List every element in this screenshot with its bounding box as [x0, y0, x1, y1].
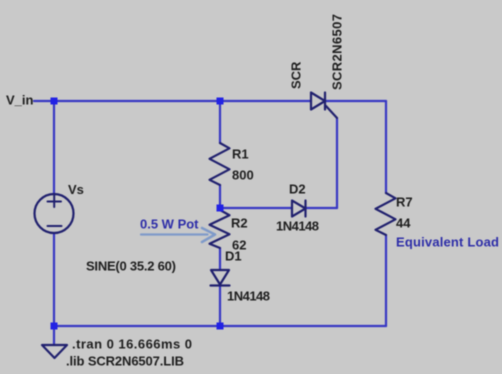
wire middle branch upper (top rail to R1) — [219, 101, 221, 143]
diode D2 cathode bar — [304, 201, 306, 217]
svg-text:R2: R2 — [231, 216, 248, 231]
svg-text:D2: D2 — [289, 182, 306, 197]
SCR U1 cathode bar — [324, 93, 326, 110]
diode D1 body — [211, 270, 229, 285]
junction node R1 top — [217, 98, 224, 105]
diode D1 cathode bar — [211, 284, 230, 286]
junction node bottom left — [51, 323, 58, 330]
wire top rail left (V_in to SCR anode) — [34, 100, 311, 102]
svg-text:Vs: Vs — [68, 182, 84, 197]
svg-text:0.5 W Pot: 0.5 W Pot — [140, 217, 199, 232]
svg-text:SCR2N6507: SCR2N6507 — [330, 14, 345, 90]
annotation arrow (pot wiper) — [141, 233, 208, 235]
svg-text:R1: R1 — [232, 147, 249, 162]
SCR U1 gate lead — [326, 106, 337, 118]
ground — [42, 345, 67, 358]
wire D2 cathode to gate corner — [306, 207, 337, 209]
wire mid node to D2 anode — [220, 207, 292, 209]
svg-text:800: 800 — [232, 168, 254, 183]
svg-text:SCR: SCR — [289, 61, 304, 89]
svg-text:D1: D1 — [225, 249, 242, 264]
wire right rail lower (R7 bottom to bottom corner) — [385, 235, 387, 326]
svg-text:.lib SCR2N6507.LIB: .lib SCR2N6507.LIB — [66, 354, 184, 369]
svg-text:.tran 0 16.666ms 0: .tran 0 16.666ms 0 — [72, 337, 192, 352]
wire bottom rail — [54, 325, 386, 327]
junction node mid (R1/R2/D2) — [217, 205, 224, 212]
svg-text:V_in: V_in — [6, 93, 34, 108]
voltage source minus sign — [48, 225, 62, 227]
wire gate vertical — [336, 118, 338, 208]
wire right rail upper (corner to R7 top) — [385, 101, 387, 193]
junction node bottom mid — [217, 323, 224, 330]
resistor R2 — [210, 210, 230, 248]
svg-text:Equivalent Load: Equivalent Load — [396, 235, 499, 250]
wire top rail right (SCR cathode to right corner) — [325, 100, 386, 102]
svg-text:R7: R7 — [396, 195, 413, 210]
svg-text:1N4148: 1N4148 — [276, 219, 319, 234]
wire left rail lower (Vs bottom to bottom rail) — [53, 233, 55, 326]
resistor R1 — [210, 143, 230, 185]
wire R1 to mid node — [219, 185, 221, 210]
junction node V_in — [51, 98, 58, 105]
svg-text:44: 44 — [396, 216, 411, 231]
SCR U1 body — [311, 93, 325, 110]
wire R2 to D1 — [219, 248, 221, 270]
voltage source plus sign — [48, 195, 62, 208]
wire ground lead — [53, 326, 55, 345]
voltage source V1 circle — [35, 194, 74, 233]
svg-text:1N4148: 1N4148 — [227, 289, 270, 304]
diode D2 body — [292, 201, 306, 217]
wire D1 to bottom rail — [219, 286, 221, 326]
wire left rail upper (V_in node to Vs top) — [53, 101, 55, 194]
resistor R7 — [376, 193, 396, 235]
svg-text:SINE(0 35.2 60): SINE(0 35.2 60) — [86, 259, 176, 274]
